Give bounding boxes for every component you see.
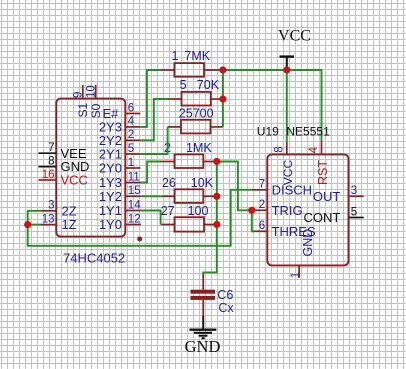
wire pin15 to resistor 26 <box>141 195 162 197</box>
svg-text:10: 10 <box>86 85 98 98</box>
svg-text:9: 9 <box>72 92 84 98</box>
capacitor C6 top lead <box>202 275 204 290</box>
svg-text:OUT: OUT <box>313 189 341 204</box>
capacitor C6 bottom lead <box>202 300 204 316</box>
svg-text:13: 13 <box>42 213 55 225</box>
resistor 25 right lead <box>211 126 223 128</box>
svg-text:S0: S0 <box>89 103 103 118</box>
IC U19 NE5551 body <box>267 154 348 265</box>
svg-text:2: 2 <box>128 129 134 141</box>
wire pin14 to resistor 27 <box>141 211 161 225</box>
wire pin13 to net <box>28 224 41 226</box>
resistor 2 left lead <box>160 161 175 163</box>
U19 pin 8 stub (VCC top) <box>286 142 288 155</box>
svg-text:S1: S1 <box>76 102 90 117</box>
svg-text:14: 14 <box>128 199 141 211</box>
svg-text:15: 15 <box>128 185 141 197</box>
svg-text:100: 100 <box>188 204 209 218</box>
U1 pin 14 stub <box>125 210 141 212</box>
svg-text:C6: C6 <box>217 288 233 302</box>
svg-text:3: 3 <box>48 200 54 212</box>
svg-text:7: 7 <box>48 142 54 154</box>
wire TRIG to THRES <box>252 210 254 231</box>
svg-text:5: 5 <box>180 78 187 92</box>
junction dot R1/VCC rail <box>219 66 226 73</box>
U1 pin 12 stub <box>125 224 141 226</box>
U1 pin 9 stub (top) <box>82 85 84 99</box>
power symbol VCC <box>280 57 295 70</box>
U1 pin 3 stub (left, 2Z) <box>41 210 56 212</box>
svg-text:1: 1 <box>128 157 134 169</box>
wire net A vertical (R1,R5,R25 right ends) <box>222 70 224 127</box>
U19 pin 1 stub (GND bottom) <box>298 265 300 278</box>
wire DISCH to 2Z/1Z net <box>28 190 252 246</box>
wire net B vertical (R2,R26,R27 right ends to C6) <box>203 162 217 276</box>
junction dot R27 right <box>213 221 220 228</box>
svg-text:Cx: Cx <box>218 301 234 315</box>
svg-text:5: 5 <box>128 143 134 155</box>
U1 pin 13 stub (left, 1Z) <box>41 224 56 226</box>
svg-text:11: 11 <box>128 171 140 183</box>
svg-text:VCC: VCC <box>61 173 88 188</box>
svg-text:1MK: 1MK <box>186 141 212 155</box>
U1 pin 7 stub (left, VEE) <box>39 152 57 154</box>
resistor 26 left lead <box>162 195 175 197</box>
U1 pin 6 stub <box>125 113 140 115</box>
U19 pin 2 stub (TRIG) <box>252 209 267 211</box>
resistor 5 left lead <box>168 98 182 100</box>
svg-text:1Y1: 1Y1 <box>99 203 122 218</box>
svg-text:2Y0: 2Y0 <box>99 161 122 176</box>
resistor 27 right lead <box>204 224 217 226</box>
svg-text:1Y0: 1Y0 <box>99 217 122 232</box>
wire net B to TRIG <box>217 162 252 211</box>
svg-text:1Y3: 1Y3 <box>99 175 122 190</box>
svg-text:74HC4052: 74HC4052 <box>63 251 125 266</box>
resistor 2 right lead <box>203 161 217 163</box>
U19 pin 3 stub (OUT) <box>349 195 364 197</box>
svg-text:2Y1: 2Y1 <box>99 147 122 162</box>
svg-text:25700: 25700 <box>179 106 214 120</box>
junction dot 2Z/1Z node <box>24 221 31 228</box>
U1 pin 10 stub (top) <box>95 85 97 99</box>
svg-text:8: 8 <box>273 146 285 152</box>
U19 pin 6 stub (THRES) <box>254 230 267 232</box>
svg-text:27: 27 <box>161 204 175 218</box>
U1 pin 16 stub (left, VCC) <box>39 179 57 181</box>
svg-text:1Z: 1Z <box>62 217 77 232</box>
resistor 1 value 7MK body <box>174 63 204 77</box>
wire VCC to U19 pin8 <box>286 70 288 142</box>
svg-text:VCC: VCC <box>278 28 311 45</box>
wire VCC to U19 pin4 <box>287 70 322 141</box>
svg-text:26: 26 <box>162 176 176 190</box>
U19 pin 7 stub (DISCH) <box>252 189 267 191</box>
U1 pin 2 stub <box>125 139 140 141</box>
svg-text:5: 5 <box>351 206 357 218</box>
svg-text:VCC: VCC <box>281 160 295 186</box>
resistor 26 right lead <box>203 195 217 197</box>
wire R1 to VCC rail <box>223 69 287 71</box>
svg-text:4: 4 <box>128 116 135 128</box>
svg-text:7: 7 <box>259 179 265 191</box>
U19 pin 5 stub (CONT) <box>349 217 364 219</box>
ground symbol <box>189 316 216 338</box>
junction dot R26 right <box>213 193 220 200</box>
svg-text:6: 6 <box>259 220 265 232</box>
svg-text:6: 6 <box>128 102 134 114</box>
resistor 2 value 1MK body <box>175 154 204 168</box>
svg-text:GND: GND <box>301 229 315 257</box>
svg-text:10K: 10K <box>191 176 214 190</box>
junction dot R5 right <box>219 95 226 102</box>
svg-text:8: 8 <box>48 155 54 167</box>
junction dot TRIG node <box>248 207 255 214</box>
svg-text:1: 1 <box>172 49 179 63</box>
origin marker dot near U1 <box>137 237 142 242</box>
resistor 27 value 100 body <box>175 217 205 231</box>
svg-text:3: 3 <box>351 185 357 197</box>
svg-text:DISCH: DISCH <box>272 182 312 197</box>
junction dot R2 right <box>213 158 220 165</box>
resistor 5 right lead <box>211 98 223 100</box>
U1 pin 15 stub <box>125 195 141 197</box>
resistor 25 value 700 body <box>181 120 211 134</box>
svg-text:4: 4 <box>308 146 320 153</box>
svg-text:2: 2 <box>259 199 265 211</box>
wire pin2 to resistor 5 <box>140 99 167 140</box>
U1 pin 4 stub <box>125 126 140 128</box>
capacitor C6 plate 1 <box>191 290 216 294</box>
svg-text:CONT: CONT <box>303 210 340 225</box>
resistor 27 left lead <box>161 224 175 226</box>
resistor 1 left lead <box>160 69 175 71</box>
U1 pin 1 stub <box>125 167 140 169</box>
resistor 1 right lead <box>204 69 223 71</box>
svg-text:16: 16 <box>42 169 55 181</box>
wire pin4 to resistor 1 <box>140 70 159 127</box>
svg-text:U19: U19 <box>257 124 279 138</box>
svg-text:TRIG: TRIG <box>272 203 303 218</box>
resistor 26 value 10K body <box>175 189 204 203</box>
svg-text:GND: GND <box>185 337 221 356</box>
resistor 25 left lead <box>168 126 181 128</box>
U1 pin 11 stub <box>125 182 141 184</box>
svg-text:RST: RST <box>316 160 330 185</box>
svg-text:1Y2: 1Y2 <box>99 189 122 204</box>
svg-text:2Z: 2Z <box>62 203 77 218</box>
svg-text:70K: 70K <box>197 78 220 92</box>
svg-text:7MK: 7MK <box>184 49 210 63</box>
U19 pin 4 stub (RST top) <box>321 141 323 155</box>
svg-text:NE5551: NE5551 <box>286 124 330 138</box>
wire pin11 to resistor 2 <box>141 162 160 183</box>
svg-text:12: 12 <box>128 213 141 225</box>
svg-text:1: 1 <box>290 272 302 278</box>
wire pin5 to resistor 25 <box>140 127 167 154</box>
resistor 5 value 70K body <box>182 92 211 106</box>
junction dot VCC power <box>283 66 290 73</box>
U1 pin 8 stub (left, GND) <box>39 166 57 168</box>
capacitor C6 plate 2 <box>191 296 216 300</box>
IC U1 74HC4052 body <box>56 99 125 237</box>
U1 pin 5 stub <box>125 153 140 155</box>
